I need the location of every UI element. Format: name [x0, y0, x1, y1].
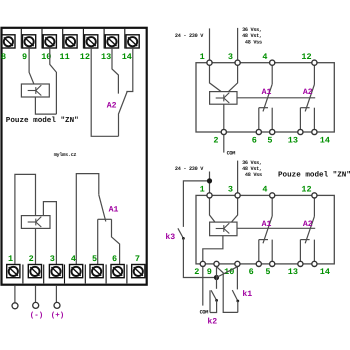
- terminal cell separator (bottom row, right of terminal 6): [126, 265, 128, 284]
- junction dot on wire 9 [schematic 2]: [214, 275, 219, 280]
- svg-text:11: 11: [60, 52, 70, 62]
- open terminal circle (+): [54, 302, 60, 308]
- svg-text:5: 5: [265, 267, 270, 277]
- relay coil box 2: [21, 216, 50, 229]
- wire contact A2 to node 14 [schematic 2]: [313, 240, 315, 264]
- svg-text:14: 14: [122, 52, 132, 62]
- wire node 2 to COM [schematic 2]: [202, 267, 204, 306]
- wire node 10 down to k1: [236, 267, 238, 290]
- wire below A2 blade: [118, 115, 120, 137]
- svg-text:k1: k1: [242, 290, 252, 299]
- node 3 [schematic 2]: [235, 193, 240, 198]
- node 1 [schematic 2]: [207, 193, 212, 198]
- svg-text:COM: COM: [227, 151, 236, 157]
- wire from terminal 1 up and over to coil box 2: [15, 174, 36, 264]
- svg-text:k3: k3: [165, 233, 175, 242]
- svg-text:A1: A1: [109, 206, 119, 215]
- node 1 [schematic 1]: [207, 60, 212, 65]
- svg-text:Pouze model "ZN": Pouze model "ZN": [6, 116, 79, 125]
- svg-text:48 Vss: 48 Vss: [245, 39, 262, 45]
- wire from terminal 13 to A2 fixed contact: [112, 48, 118, 94]
- screw terminal 5: [90, 265, 103, 278]
- relay coil box (model ZN): [21, 84, 49, 97]
- wire from coil to contact blades [schematic 2]: [237, 227, 315, 229]
- open terminal circle (terminal 1): [12, 303, 18, 309]
- svg-text:3: 3: [228, 52, 233, 62]
- svg-text:48 Vst,: 48 Vst,: [242, 166, 262, 172]
- node 3 [schematic 1]: [235, 60, 240, 65]
- wire contact A2 to node 13 [schematic 1]: [299, 108, 301, 132]
- svg-text:2: 2: [29, 254, 34, 264]
- node 12 [schematic 2]: [312, 193, 317, 198]
- svg-text:13: 13: [288, 136, 298, 146]
- node 13 (bottom) [schematic 2]: [298, 261, 303, 266]
- svg-text:3: 3: [50, 254, 55, 264]
- svg-text:6: 6: [112, 254, 117, 264]
- contact A2 blade [schematic 2]: [305, 216, 314, 243]
- schematic frame wire loop (model ZN) [schematic 2]: [196, 195, 334, 264]
- wire contact A1 to node 6 [schematic 2]: [258, 240, 260, 264]
- terminal cell separator (bottom row, right of terminal 4): [84, 265, 86, 284]
- svg-text:1: 1: [200, 52, 205, 62]
- wire coil bottom to node 2 (L path) [schematic 2]: [203, 236, 223, 264]
- switch k2 tip leg: [209, 290, 211, 312]
- wire contact A1 to node 6 [schematic 1]: [258, 108, 260, 132]
- svg-text:Pouze model "ZN": Pouze model "ZN": [278, 170, 350, 179]
- wire from coil box 2 bottom to terminal 2: [35, 228, 37, 264]
- svg-text:48 Vss: 48 Vss: [245, 172, 262, 178]
- node 5 (bottom) [schematic 2]: [270, 261, 275, 266]
- wire node 4 down [schematic 2]: [271, 195, 273, 216]
- screw terminal 10: [43, 35, 56, 48]
- contact A1 blade [schematic 2]: [263, 216, 272, 243]
- node 4 [schematic 1]: [270, 60, 275, 65]
- screw terminal 13: [105, 35, 118, 48]
- wire node 9 to k1 bottom: [217, 267, 238, 313]
- svg-text:1: 1: [200, 185, 205, 195]
- wire from coil box bottom: [35, 97, 56, 114]
- svg-text:4: 4: [262, 52, 267, 62]
- contact A2 fixed bar [schematic 2]: [300, 239, 309, 241]
- terminal cell separator (top row, left of terminal 10): [41, 29, 43, 49]
- coil symbol K 2: [28, 217, 42, 227]
- wire junction to k3: [183, 181, 209, 227]
- terminal cell separator (top row, left of terminal 9): [20, 29, 22, 49]
- svg-text:A1: A1: [262, 88, 272, 97]
- svg-text:A1: A1: [262, 220, 272, 229]
- contact A2 blade [schematic 1]: [305, 85, 314, 112]
- wire from 24-230V supply to node 1 (through junction) [schematic 2]: [209, 172, 211, 196]
- svg-text:12: 12: [301, 185, 311, 195]
- contact A2 blade (left block): [118, 92, 127, 115]
- wire from coil to contact blades [schematic 1]: [237, 97, 315, 99]
- svg-text:2: 2: [194, 267, 199, 277]
- svg-text:6: 6: [252, 136, 257, 146]
- svg-text:14: 14: [320, 267, 330, 277]
- svg-text:4: 4: [262, 185, 267, 195]
- node 12 [schematic 1]: [312, 60, 317, 65]
- terminal cell separator (bottom row, right of terminal 1): [22, 265, 24, 284]
- svg-text:14: 14: [320, 136, 330, 146]
- wire node 2 to COM [schematic 1]: [223, 135, 225, 153]
- switch k2 contact dot: [215, 299, 218, 302]
- svg-text:COM: COM: [200, 310, 209, 316]
- node 14 (bottom) [schematic 2]: [312, 261, 317, 266]
- svg-text:7: 7: [135, 254, 140, 264]
- wire node 1 to coil [schematic 1]: [210, 63, 222, 92]
- svg-text:9: 9: [207, 267, 212, 277]
- open terminal circle (-): [33, 302, 39, 308]
- svg-text:5: 5: [267, 136, 272, 146]
- svg-text:A2: A2: [107, 102, 117, 111]
- node 2 (bottom) [schematic 2]: [200, 261, 205, 266]
- wire from 24-230V supply to node 1 [schematic 1]: [209, 28, 211, 62]
- relay coil box [schematic 2]: [210, 222, 237, 236]
- svg-text:13: 13: [288, 267, 298, 277]
- supply wire from terminal 2: [35, 286, 37, 303]
- node 6 (bottom) [schematic 2]: [256, 261, 261, 266]
- contact A1 fixed bar: [98, 218, 112, 220]
- screw terminal 12: [85, 35, 98, 48]
- screw terminal 4: [70, 265, 83, 278]
- node 5 (bottom) [schematic 1]: [270, 129, 275, 134]
- svg-text:2: 2: [213, 136, 218, 146]
- contact A1 fixed bar [schematic 1]: [259, 107, 268, 109]
- wire contact A1 to node 5 [schematic 2]: [271, 240, 273, 264]
- housing outline of relay socket: [2, 28, 147, 285]
- coil symbol K: [28, 85, 42, 95]
- wire k3 to junction on wire 9: [183, 238, 216, 277]
- svg-text:1: 1: [8, 254, 13, 264]
- wire from 36-48V supply to node 3 [schematic 2]: [237, 161, 239, 196]
- screw terminal 7: [132, 265, 145, 278]
- wire from A1 to terminal 5: [97, 219, 99, 264]
- svg-text:9: 9: [22, 52, 27, 62]
- wire from A1 to terminal 6: [112, 219, 120, 264]
- screw terminal 14: [126, 35, 139, 48]
- node 4 [schematic 2]: [270, 193, 275, 198]
- wire from 36-48V supply to node 3 [schematic 1]: [237, 28, 239, 63]
- svg-text:36 Vss,: 36 Vss,: [242, 160, 262, 166]
- screw terminal 6: [111, 265, 124, 278]
- wire from terminal 10 down: [50, 48, 57, 114]
- svg-text:24 - 230 V: 24 - 230 V: [175, 166, 204, 172]
- svg-text:4: 4: [71, 254, 76, 264]
- contact A1 blade (left block): [99, 195, 106, 222]
- svg-text:6: 6: [249, 267, 254, 277]
- wire coil bottom to node 2 [schematic 1]: [223, 104, 225, 132]
- contact A1 blade [schematic 1]: [263, 84, 272, 111]
- screw terminal 8: [2, 35, 15, 48]
- wire contact A2 to node 14 [schematic 1]: [313, 108, 315, 132]
- wire from terminal 14 to A2 blade top: [126, 48, 132, 92]
- wire node 12 down [schematic 1]: [313, 63, 315, 85]
- svg-text:mylms.cz: mylms.cz: [54, 152, 77, 158]
- supply wire from terminal 1: [14, 286, 16, 303]
- svg-text:12: 12: [301, 52, 311, 62]
- wire from terminal 9 to coil box: [29, 48, 34, 84]
- terminal cell separator (top row, left of terminal 13): [103, 29, 105, 49]
- node 10 (bottom) [schematic 2]: [235, 261, 240, 266]
- switch k2 blade: [211, 290, 217, 300]
- wire contact A1 to node 5 [schematic 1]: [271, 108, 273, 132]
- wire contact A2 to node 13 [schematic 2]: [299, 240, 301, 264]
- svg-text:k2: k2: [207, 317, 217, 326]
- switch k1 contact dot: [236, 300, 239, 303]
- switch k3 blade: [178, 228, 184, 238]
- wire from terminal 4 up and over to contact A1: [76, 174, 99, 265]
- coil symbol K [schematic 2]: [216, 223, 230, 233]
- wire below k1: [237, 301, 239, 312]
- wire node 3 to coil [schematic 1]: [229, 63, 238, 92]
- node 6 (bottom) [schematic 1]: [256, 129, 261, 134]
- node 13 (bottom) [schematic 1]: [298, 129, 303, 134]
- junction dot on wire 1 [schematic 2]: [207, 178, 212, 183]
- terminal cell separator (top row, left of terminal 14): [124, 29, 126, 49]
- screw terminal 2: [28, 265, 41, 278]
- wire from terminal 12 to contact A2 bottom: [91, 48, 118, 136]
- switch k1 blade: [232, 290, 238, 301]
- terminal cell separator (bottom row, right of terminal 2): [43, 265, 45, 284]
- terminal cell separator (bottom row, right of terminal 5): [105, 265, 107, 284]
- svg-text:A2: A2: [303, 88, 313, 97]
- svg-text:13: 13: [101, 52, 111, 62]
- wire node 9 down to k2: [216, 267, 218, 289]
- svg-text:8: 8: [1, 52, 6, 62]
- schematic frame wire loop [schematic 1]: [196, 63, 334, 132]
- terminal cell separator (top row, left of terminal 12): [82, 29, 84, 49]
- svg-text:24 - 230 V: 24 - 230 V: [175, 33, 204, 39]
- svg-text:3: 3: [228, 185, 233, 195]
- node 14 (bottom) [schematic 1]: [312, 129, 317, 134]
- screw terminal 3: [49, 265, 62, 278]
- screw terminal 1: [7, 265, 20, 278]
- svg-text:12: 12: [80, 52, 90, 62]
- screw terminal 11: [64, 35, 77, 48]
- wire node 1 to coil [schematic 2]: [210, 195, 216, 222]
- svg-text:48 Vst,: 48 Vst,: [242, 33, 262, 39]
- svg-text:A2: A2: [303, 220, 313, 229]
- terminal cell separator (top row, left of terminal 11): [62, 29, 64, 49]
- wire node 4 down [schematic 1]: [271, 63, 273, 84]
- wire node 3 to coil [schematic 2]: [231, 195, 237, 222]
- coil symbol K [schematic 1]: [216, 93, 230, 103]
- relay coil box [schematic 1]: [210, 92, 237, 105]
- wire from coil box 2 top right to terminal 3: [43, 202, 56, 265]
- node 2 (bottom) [schematic 1]: [221, 129, 226, 134]
- supply wire from terminal 3: [55, 286, 57, 303]
- svg-text:36 Vss,: 36 Vss,: [242, 27, 262, 33]
- screw terminal 9: [23, 35, 36, 48]
- contact A1 fixed bar [schematic 2]: [259, 239, 268, 241]
- wire below k2: [210, 300, 217, 312]
- svg-text:(-): (-): [30, 311, 44, 320]
- svg-text:5: 5: [92, 254, 97, 264]
- switch k3 contact dot: [182, 237, 185, 240]
- wire node 10 to junction dot: [217, 267, 238, 278]
- wire node 12 down [schematic 2]: [313, 195, 315, 216]
- terminal cell separator (bottom row, right of terminal 3): [64, 265, 66, 284]
- node 9 (bottom) [schematic 2]: [214, 261, 219, 266]
- svg-text:(+): (+): [51, 311, 65, 320]
- contact A2 fixed bar [schematic 1]: [300, 107, 309, 109]
